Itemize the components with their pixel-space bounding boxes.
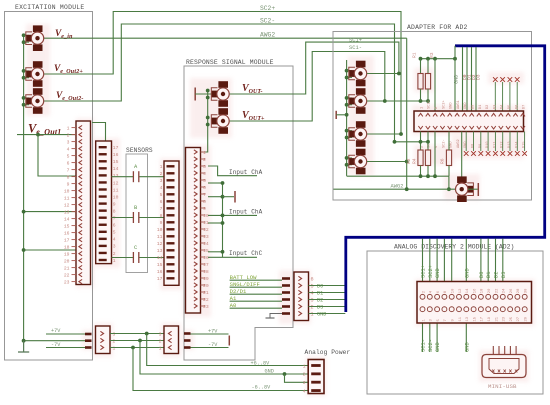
- pin 4 of X6: [311, 389, 321, 392]
- junction dot at AWG2 BNC shield: [447, 187, 451, 191]
- pin 20 of J1: [72, 260, 77, 262]
- terminal bar adapter shield: [335, 111, 337, 119]
- wire ground chain of excitation BNC shields: [23, 35, 25, 353]
- wire +7V (excitation): [46, 333, 85, 335]
- wire pin7 to net: [208, 196, 223, 198]
- wire V_e_Out1 branch down to pin row 8: [38, 135, 76, 176]
- header JP2 column 9 pins: [477, 113, 481, 116]
- svg-text:13: 13: [466, 316, 470, 321]
- junction dot chain/supply: [22, 339, 26, 343]
- pin 1 of J2: [99, 259, 107, 261]
- wire vertical shared net of inputs: [222, 183, 224, 257]
- pin 2 of JP1: [298, 304, 301, 308]
- svg-text:15: 15: [473, 316, 477, 321]
- svg-text:12: 12: [157, 241, 163, 247]
- wire header col3 down: [434, 132, 436, 177]
- header JP3 column 14 pads: [515, 294, 520, 299]
- pin 6 of JP1: [298, 276, 301, 280]
- header JP3 column 10 pads: [486, 294, 491, 299]
- header JP3 column 1 pads: [420, 294, 425, 299]
- svg-text:22: 22: [64, 273, 70, 279]
- svg-text:AWG2: AWG2: [260, 32, 275, 39]
- pin 18 of J1: [72, 246, 77, 248]
- svg-text:D1: D1: [479, 105, 483, 109]
- junction dots on BNC shield chain: [22, 33, 26, 37]
- connector X11 (BNC) AWG2 output: [457, 176, 467, 183]
- junction dot on chain at row 18: [22, 248, 26, 252]
- svg-text:SC1+: SC1+: [428, 100, 432, 109]
- wire D3 tap from bus: [475, 47, 477, 111]
- svg-text:BATT LOW: BATT LOW: [230, 274, 257, 281]
- svg-text:8: 8: [67, 175, 70, 181]
- svg-text:18: 18: [481, 288, 485, 293]
- wire/label BATT LOW: [230, 279, 282, 281]
- svg-text:14: 14: [64, 217, 70, 223]
- svg-text:15: 15: [203, 248, 209, 254]
- svg-text:16: 16: [64, 231, 70, 237]
- wire net SC1+ (V_OUT- to adapter): [230, 42, 399, 94]
- svg-text:17: 17: [157, 276, 163, 282]
- svg-text:C: C: [134, 245, 137, 251]
- svg-text:20: 20: [64, 259, 70, 265]
- svg-text:5: 5: [113, 230, 116, 236]
- svg-text:10: 10: [64, 189, 70, 195]
- pin 2 of SV1: [100, 338, 103, 342]
- resistor R6 lead from header: [448, 132, 450, 151]
- connector X10 (BNC) adapter ch4: [356, 149, 366, 156]
- junction dot SC2- node: [393, 140, 397, 144]
- resistor R1 top lead: [420, 59, 422, 74]
- pin 1 of SV1: [100, 345, 103, 349]
- wire net SC2+ (V_e_Out2+ to adapter): [44, 12, 401, 135]
- wire net to terminal bar: [223, 196, 235, 198]
- svg-text:-7V: -7V: [51, 342, 61, 348]
- svg-text:1: 1: [420, 107, 424, 109]
- bus DBUS (navy) adapter to AD2 module: [346, 46, 545, 312]
- pin 21 of J1: [72, 267, 77, 269]
- svg-text:5: 5: [311, 284, 314, 290]
- svg-text:GND: GND: [454, 75, 460, 84]
- svg-text:13: 13: [64, 210, 70, 216]
- svg-text:D3: D3: [476, 74, 482, 80]
- pin 15 of J3: [167, 263, 175, 265]
- header JP2 column 8 pins: [470, 113, 474, 116]
- svg-text:D0: D0: [472, 105, 476, 109]
- svg-text:D5: D5: [508, 105, 512, 109]
- svg-text:4: 4: [311, 291, 314, 297]
- svg-text:9: 9: [203, 206, 206, 212]
- pin 2 of X6: [311, 372, 321, 375]
- header JP2 column 4 pins: [440, 113, 444, 116]
- header JP2 column 10 pins: [484, 113, 488, 116]
- wire bottom shield node: [347, 175, 449, 177]
- header JP3 column 7 pads: [464, 294, 469, 299]
- svg-text:10: 10: [157, 227, 163, 233]
- svg-text:17: 17: [481, 317, 485, 322]
- svg-text:SC2-: SC2-: [260, 18, 275, 25]
- pin 5 of J4: [201, 179, 206, 181]
- svg-text:3: 3: [311, 298, 314, 304]
- pin 4 of J3: [167, 186, 175, 188]
- wire GND drop from bus to header: [454, 46, 456, 111]
- svg-text:8: 8: [203, 199, 206, 205]
- svg-text:1: 1: [113, 258, 116, 264]
- wire GND below AD2 header col 7: [465, 323, 467, 353]
- svg-text:16: 16: [203, 255, 209, 261]
- wire bar to shield chain: [336, 114, 346, 116]
- wire net from bus to AD2 header col 4: [443, 239, 445, 282]
- svg-text:11: 11: [113, 187, 119, 193]
- svg-text:7: 7: [444, 319, 448, 321]
- svg-text:D3: D3: [501, 272, 507, 278]
- pin 3 of SV2: [168, 331, 171, 335]
- module box: ADAPTER FOR AD2: [333, 32, 532, 201]
- connector J3 (17-pin, pads column right of sensors): [164, 161, 179, 285]
- svg-text:1: 1: [203, 150, 206, 156]
- pin 18 of J4: [201, 270, 206, 272]
- junction dot ChA second: [221, 214, 225, 218]
- header JP2 column 12 pins: [499, 113, 503, 116]
- pin 16 of J2: [99, 153, 107, 155]
- svg-text:GND: GND: [265, 369, 274, 375]
- header JP2 column 1 pins: [418, 113, 422, 116]
- svg-text:SC1+: SC1+: [421, 265, 427, 278]
- pin 15 of J2: [99, 160, 107, 162]
- pad bars of excitation supply connector: [85, 333, 92, 336]
- sensor capacitor B wires: [112, 217, 134, 219]
- svg-text:SC2-: SC2-: [428, 339, 434, 352]
- pin 15 of J4: [201, 249, 206, 251]
- pin 1 of J3: [167, 165, 175, 167]
- connector X6 (4-pin Analog Power): [308, 360, 324, 394]
- pin 9 of J1: [72, 183, 77, 185]
- wire SC2+ from bus to AD2 header col 2: [429, 239, 431, 282]
- pin 7 of J2: [99, 217, 107, 219]
- svg-text:16: 16: [113, 152, 119, 158]
- resistor R1 bottom lead: [420, 89, 422, 101]
- pin 17 of J3: [167, 277, 175, 279]
- pin 4 of JP1: [298, 290, 301, 294]
- wire D3 from bus to AD2 header col 12: [502, 239, 504, 282]
- wire -7V (response): [191, 347, 229, 349]
- wire shield stubs adapter: [347, 70, 352, 72]
- junction dot R1 bottom: [419, 99, 423, 103]
- svg-text:3: 3: [203, 164, 206, 170]
- wire GND to bus: [309, 313, 346, 315]
- connector X5 (BNC) V_OUT+: [218, 108, 228, 115]
- module box: RESPONSE SIGNAL MODULE: [184, 66, 293, 360]
- svg-text:1: 1: [303, 363, 306, 369]
- pin 22 of J4: [201, 298, 206, 300]
- wire SC1- below AD2 header col 1: [422, 323, 424, 353]
- pin 2 of J2: [99, 252, 107, 254]
- pin 11 of J2: [99, 188, 107, 190]
- svg-text:2: 2: [113, 251, 116, 257]
- wire -6..8V feed down/right to Analog Power pin4: [133, 348, 308, 391]
- svg-text:18: 18: [64, 245, 70, 251]
- svg-text:5: 5: [67, 154, 70, 160]
- pin 19 of J1: [72, 253, 77, 255]
- wire GND below AD2 header col 3: [436, 323, 438, 353]
- svg-text:Input ChA: Input ChA: [229, 169, 263, 176]
- header JP3 column 5 pads: [449, 294, 454, 299]
- svg-text:R6: R6: [440, 158, 446, 164]
- wire stub into connector J2 top: [92, 123, 106, 142]
- wire V_OUT BNC shield chain down to J4 pin1: [201, 91, 208, 153]
- svg-text:18: 18: [203, 269, 209, 275]
- svg-text:SENSORS: SENSORS: [126, 147, 153, 154]
- header JP3 column 8 pads: [471, 294, 476, 299]
- pin 11 of J4: [201, 221, 206, 223]
- svg-text:30: 30: [525, 288, 529, 293]
- wire supply rail pin3 to response module: [110, 333, 164, 335]
- svg-text:5: 5: [203, 178, 206, 184]
- svg-text:23: 23: [503, 316, 507, 321]
- wire X8 to R1/R3 bottoms: [367, 100, 428, 102]
- pin 4 of J1: [72, 148, 77, 150]
- terminal bar left of V_OUT-: [194, 88, 196, 101]
- svg-text:21: 21: [495, 316, 499, 321]
- sensor capacitor C wires: [112, 257, 134, 259]
- wire supply rail pin1: [110, 347, 164, 349]
- svg-text:1: 1: [159, 345, 162, 351]
- pin 10 of J1: [72, 190, 77, 192]
- svg-text:RESPONSE SIGNAL MODULE: RESPONSE SIGNAL MODULE: [186, 59, 274, 66]
- resistor R4: [425, 150, 430, 166]
- pin 1 of J1: [72, 127, 77, 129]
- svg-text:SNGL/DIFF: SNGL/DIFF: [230, 281, 260, 288]
- svg-text:7: 7: [67, 168, 70, 174]
- junction dot rail2: [138, 339, 142, 343]
- svg-text:13: 13: [157, 248, 163, 254]
- wire R2 top lead from header: [420, 132, 422, 151]
- wire header col6 down to X11 top pad: [461, 132, 463, 180]
- ground symbol (excitation module): [23, 341, 25, 352]
- header JP3 column 12 pads: [500, 294, 505, 299]
- pin 17 of J2: [99, 146, 107, 148]
- connector X9 (BNC) adapter ch3: [356, 121, 366, 128]
- pin 2 of SV2: [168, 338, 171, 342]
- svg-text:D6: D6: [515, 105, 519, 109]
- pin 12 of J3: [167, 242, 175, 244]
- connector X4 (BNC) V_OUT-: [218, 81, 228, 88]
- junction dot net row7: [221, 195, 225, 199]
- wire/label A0: [230, 307, 282, 309]
- svg-text:16: 16: [157, 269, 163, 275]
- junction dot R2 top: [419, 140, 423, 144]
- wire GND feed down/right to Analog Power pin2: [140, 341, 308, 375]
- svg-text:8: 8: [160, 213, 163, 219]
- svg-text:17: 17: [113, 145, 119, 151]
- svg-text:Input ChA: Input ChA: [229, 209, 263, 216]
- header JP3 column 6 pads: [457, 294, 462, 299]
- svg-text:AWG2: AWG2: [391, 184, 404, 190]
- pin 17 of J4: [201, 263, 206, 265]
- svg-text:GND: GND: [464, 342, 470, 352]
- junction dot SC1+/X7: [397, 72, 401, 76]
- sensor capacitor C: [132, 252, 134, 263]
- junction dot AWG2/X10: [405, 160, 409, 164]
- pin 2 of J4: [201, 158, 206, 160]
- pad bars of response supply connector: [184, 332, 191, 335]
- pin 13 of J2: [99, 174, 107, 176]
- svg-text:SC1+: SC1+: [349, 38, 362, 44]
- svg-text:2: 2: [160, 171, 163, 177]
- module box: EXCITATION MODULE: [5, 12, 93, 361]
- sensor capacitor A: [132, 171, 134, 182]
- connector X2 (BNC) V_e_Out2+: [33, 61, 43, 68]
- svg-text:R3: R3: [429, 52, 435, 58]
- wire D0 to bus: [309, 285, 346, 287]
- pin 15 of J1: [72, 225, 77, 227]
- header JP3 column 15 pads: [522, 294, 527, 299]
- resistor R1: [418, 74, 423, 90]
- pin 1 of X6: [311, 364, 321, 367]
- wire SC1+ from bus to AD2 header col 1: [422, 239, 424, 282]
- wire net V_e_Out1: [17, 134, 76, 136]
- junction dot rail3: [145, 332, 149, 336]
- connector X1 (BNC) V_e_in: [33, 25, 43, 32]
- svg-text:28: 28: [517, 288, 521, 293]
- wire AWG2 vertical drop in adapter: [406, 38, 408, 189]
- junction dots bottom shield node: [419, 174, 423, 178]
- no-connect marks below header (9): [465, 132, 467, 152]
- wire top node R1/R3/GND: [421, 58, 456, 60]
- pin 23 of J1: [72, 281, 77, 283]
- connector X3 (BNC) V_e_Out2-: [33, 88, 43, 95]
- resistor R3: [425, 74, 430, 90]
- svg-text:4: 4: [67, 147, 70, 153]
- svg-text:22: 22: [203, 297, 209, 303]
- pin 13 of J1: [72, 211, 77, 213]
- junction dot R3 bottom: [426, 99, 430, 103]
- wire D0 from bus to AD2 header col 9: [480, 239, 482, 282]
- svg-text:7: 7: [203, 192, 206, 198]
- svg-text:15: 15: [64, 224, 70, 230]
- wire X10 to AWG2 vertical: [367, 161, 407, 163]
- svg-text:D1: D1: [486, 272, 492, 278]
- svg-text:EXCITATION MODULE: EXCITATION MODULE: [15, 4, 84, 11]
- wire GND from bus to AD2 header col 3: [436, 239, 438, 282]
- svg-text:4: 4: [303, 388, 306, 394]
- svg-text:7: 7: [113, 216, 116, 222]
- svg-text:27: 27: [517, 317, 521, 322]
- svg-text:2: 2: [67, 133, 70, 139]
- svg-text:4: 4: [435, 146, 439, 148]
- junction dot rail1: [131, 346, 135, 350]
- svg-text:15: 15: [113, 159, 119, 165]
- resistor R4 bottom lead: [427, 166, 429, 177]
- pin 10 of J4: [201, 214, 206, 216]
- pin 11 of J3: [167, 235, 175, 237]
- pin 12 of J1: [72, 204, 77, 206]
- svg-text:1: 1: [113, 345, 116, 351]
- svg-text:23: 23: [64, 280, 70, 286]
- connector SV2 (3-pin response supply): [164, 326, 179, 354]
- svg-text:Analog Power: Analog Power: [305, 349, 351, 356]
- svg-text:25: 25: [510, 316, 514, 321]
- svg-text:6: 6: [113, 223, 116, 229]
- pin header JP2 (2x15 adapter header): [414, 111, 524, 132]
- header JP3 column 13 pads: [508, 294, 513, 299]
- svg-text:SC2+: SC2+: [442, 100, 446, 109]
- header JP2 column 13 pins: [506, 113, 510, 116]
- header JP3 column 2 pads: [427, 294, 432, 299]
- pin 2 of J3: [167, 172, 175, 174]
- module box: ANALOG DISCOVERY 2 MODULE (AD2): [367, 251, 543, 394]
- svg-text:D0: D0: [317, 284, 323, 290]
- wire pin5 to net: [208, 182, 223, 184]
- svg-text:6: 6: [203, 185, 206, 191]
- svg-text:21: 21: [203, 290, 209, 296]
- svg-text:17: 17: [64, 238, 70, 244]
- pin 16 of J4: [201, 256, 206, 258]
- junction dot net row5: [221, 181, 225, 185]
- svg-text:10: 10: [452, 288, 456, 293]
- svg-text:10: 10: [113, 194, 119, 200]
- wire/label SNGL/DIFF: [230, 286, 282, 288]
- svg-text:24: 24: [503, 288, 507, 293]
- svg-text:4: 4: [203, 171, 206, 177]
- connector X12 MINI-USB: [482, 355, 526, 378]
- resistor R3 top lead: [427, 59, 429, 74]
- svg-text:1: 1: [311, 312, 314, 318]
- resistor R6 bottom lead: [448, 166, 450, 177]
- wire D2 from bus to AD2 header col 11: [495, 239, 497, 282]
- svg-text:Input ChC: Input ChC: [229, 250, 263, 257]
- wire D1 tap from bus: [466, 47, 468, 111]
- wire net from bus to AD2 header col 5: [451, 239, 453, 282]
- svg-text:10: 10: [203, 213, 209, 219]
- connector J1 (23-pin, left column of excitation module): [76, 121, 91, 285]
- svg-text:14: 14: [466, 288, 470, 293]
- svg-text:12: 12: [203, 227, 209, 233]
- pin 9 of J3: [167, 221, 175, 223]
- svg-text:7: 7: [160, 206, 163, 212]
- svg-text:9: 9: [113, 201, 116, 207]
- pin 8 of J4: [201, 200, 206, 202]
- svg-text:14: 14: [157, 255, 163, 261]
- svg-text:D2: D2: [486, 105, 490, 109]
- svg-text:12: 12: [459, 288, 463, 293]
- resistor R6: [446, 150, 451, 166]
- svg-text:3: 3: [113, 244, 116, 250]
- svg-text:-7V: -7V: [208, 342, 218, 348]
- svg-text:3: 3: [113, 331, 116, 337]
- svg-text:3: 3: [67, 140, 70, 146]
- resistor R3 bottom lead: [427, 89, 429, 101]
- wire GND branch to pin3: [285, 374, 309, 382]
- module box: SENSORS: [126, 154, 148, 273]
- junction dot on chain at row 13: [22, 210, 26, 214]
- svg-text:2: 2: [203, 157, 206, 163]
- pin 13 of J3: [167, 249, 175, 251]
- header JP3 column 3 pads: [435, 294, 440, 299]
- svg-text:11: 11: [459, 316, 463, 321]
- wire D1 from bus to AD2 header col 10: [487, 239, 489, 282]
- svg-text:8: 8: [113, 208, 116, 214]
- pin 14 of J2: [99, 167, 107, 169]
- wire BNC shield stubs to brackets: [24, 34, 29, 36]
- pin 14 of J1: [72, 218, 77, 220]
- junction dot R4 top: [426, 140, 430, 144]
- wire pin1 to ground (6-pin connector): [270, 314, 282, 318]
- svg-text:GND: GND: [450, 142, 454, 148]
- wire D1 to bus: [309, 292, 346, 294]
- header JP2 column 7 pins: [462, 113, 466, 116]
- pin 3 of J1: [72, 141, 77, 143]
- svg-text:9: 9: [67, 182, 70, 188]
